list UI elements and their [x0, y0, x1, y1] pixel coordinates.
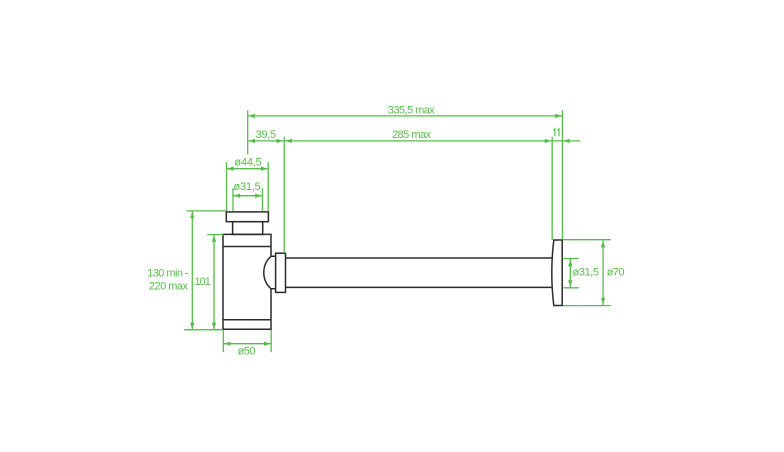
arrow dia31,5r top	[568, 260, 572, 267]
dimension line 101	[213, 235, 215, 329]
arrow dia70 bottom	[601, 298, 605, 305]
svg-text:ø31,5: ø31,5	[233, 181, 260, 193]
arrow 101 bottom	[212, 323, 216, 330]
arrow dia31,5t right	[255, 194, 262, 198]
body top band line	[223, 246, 271, 248]
extension line C (285/11 boundary)	[551, 137, 553, 240]
arrow dia50 right	[264, 342, 271, 346]
dimension leader 11	[552, 140, 580, 142]
svg-text:130 min -: 130 min -	[147, 268, 189, 280]
arrow 285 left	[285, 139, 292, 143]
arrow 335,5 right	[555, 114, 562, 118]
dimension line 285 max	[285, 140, 552, 142]
svg-text:ø70: ø70	[607, 267, 625, 279]
svg-text:335,5 max: 335,5 max	[388, 104, 435, 116]
svg-text:ø50: ø50	[238, 346, 256, 358]
svg-text:ø44,5: ø44,5	[234, 157, 261, 169]
neck (inlet tube)	[233, 222, 263, 235]
ext line top of 130min dim	[186, 210, 226, 212]
svg-text:39,5: 39,5	[256, 129, 276, 141]
arrow 39,5 right	[276, 139, 283, 143]
arrow dia31,5t left	[234, 194, 241, 198]
outlet nut	[276, 253, 286, 292]
ext line top of 101 dim	[207, 234, 223, 236]
arrow 335,5 left	[248, 114, 255, 118]
wall flange	[552, 240, 562, 306]
svg-text:101: 101	[195, 276, 211, 288]
arrow 130min bottom	[190, 323, 194, 330]
arrow 285 right	[545, 139, 552, 143]
trap body	[223, 234, 271, 329]
extension line A (left, 335.5/39.5 datum)	[247, 110, 249, 154]
svg-text:ø31,5: ø31,5	[573, 267, 599, 279]
pipe bottom line	[286, 286, 553, 288]
dimension line dia44,5	[227, 168, 269, 170]
dimension line dia70	[602, 240, 604, 305]
ext lines dia31,5 right	[563, 258, 579, 260]
dimension line 130min-220max	[191, 211, 193, 329]
top flange (inlet nut)	[226, 212, 268, 222]
svg-text:285 max: 285 max	[392, 129, 432, 141]
arrow dia31,5r bottom	[568, 280, 572, 287]
ext lines dia70	[563, 239, 611, 241]
arrow 11 outside	[563, 139, 570, 143]
svg-text:220 max: 220 max	[149, 281, 189, 293]
dimension line dia31,5 right	[569, 259, 571, 287]
dimension line 335,5 max	[248, 115, 563, 117]
dimension line dia50	[223, 343, 271, 345]
arrow 130min top	[190, 212, 194, 219]
ext lines dia31,5 top	[232, 188, 234, 211]
extension line D (right, 335.5/11 datum)	[561, 110, 563, 240]
extension line B (39.5/285 boundary)	[283, 137, 285, 253]
outlet dome arc	[264, 256, 276, 289]
dimension line 39,5	[248, 140, 284, 142]
arrow dia44,5 left	[227, 167, 234, 171]
ext lines dia50	[222, 330, 224, 352]
arrow dia50 left	[224, 342, 231, 346]
arrow dia70 top	[601, 241, 605, 248]
arrow dia44,5 right	[261, 167, 268, 171]
arrow 101 top	[212, 235, 216, 242]
body bottom band line	[223, 319, 271, 321]
ext lines dia44,5	[226, 162, 228, 211]
arrow 39,5 left	[248, 139, 255, 143]
ext line bottom of vertical dims	[184, 329, 223, 331]
dimension line dia31,5 top	[233, 195, 262, 197]
label 11	[554, 129, 559, 136]
pipe top line	[286, 257, 553, 259]
